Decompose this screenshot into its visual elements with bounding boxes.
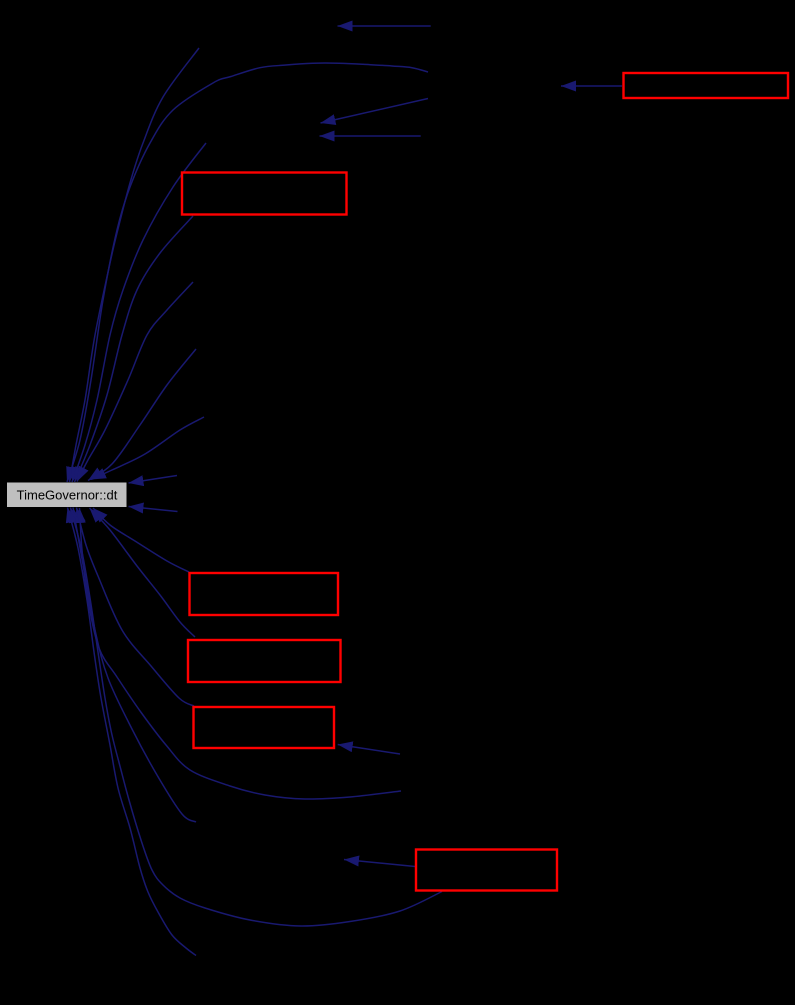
edge F: red box R1 to TimeGovernor::dt [75, 216, 194, 482]
svg-text:TimeGovernor::dt: TimeGovernor::dt [17, 488, 118, 503]
arrow T1: second-level edge into node at top left [338, 25, 431, 27]
red box R1 [182, 173, 347, 215]
arrow C: second-level edge from node (428,98) [321, 99, 429, 124]
red box R5 [416, 850, 557, 891]
edge f: long arc from red box R5 to TimeGovernor::dt [71, 508, 443, 927]
edge d: caller node at (196,822) to TimeGovernor::dt [73, 508, 196, 823]
edge from red box R4 to TimeGovernor::dt [77, 508, 195, 707]
red box R4 [194, 707, 335, 748]
edge g: caller node at (196,954) to TimeGovernor::dt [68, 508, 197, 956]
edge G: caller node to TimeGovernor::dt [77, 282, 193, 482]
red box R3 [188, 640, 341, 682]
edge B: long arc from node at (428,72) to TimeGovernor::dt [67, 63, 428, 482]
arrow from red box R6 [561, 85, 622, 87]
edge from red box R2 to TimeGovernor::dt [93, 508, 189, 572]
node TimeGovernor::dt [7, 483, 127, 508]
edge K: caller node to TimeGovernor::dt (right, lower) [129, 507, 178, 512]
arrow into red box R4 east side [338, 745, 400, 755]
edge from red box R3 to TimeGovernor::dt [90, 508, 196, 637]
edge e: long arc from node at (401,791) to TimeGovernor::dt [80, 508, 402, 799]
edge A: caller node (top) to TimeGovernor::dt [70, 48, 200, 482]
edge E: caller node to TimeGovernor::dt [72, 143, 206, 482]
arrow from red box R5 west side [344, 860, 415, 867]
arrow D: second-level edge (horizontal) [320, 135, 421, 137]
edge I: caller node to TimeGovernor::dt [91, 417, 204, 480]
edge J: caller node to TimeGovernor::dt (right, upper) [129, 476, 178, 484]
red box R6 [624, 73, 789, 98]
red box R2 [190, 573, 339, 615]
edge H: caller node to TimeGovernor::dt [88, 349, 196, 481]
